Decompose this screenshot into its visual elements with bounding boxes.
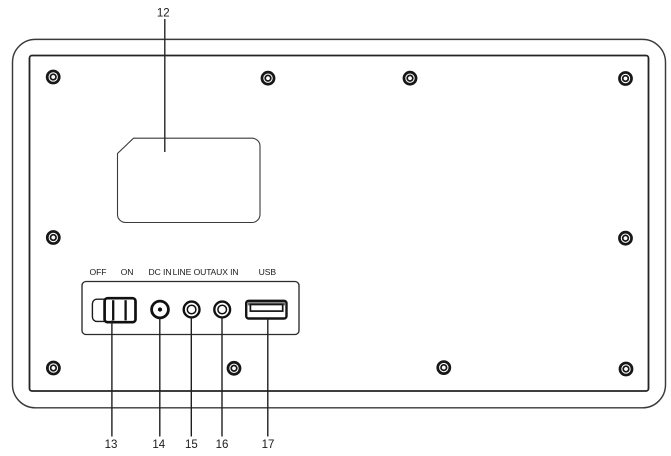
svg-text:17: 17	[262, 439, 275, 451]
svg-text:AUX IN: AUX IN	[210, 267, 238, 277]
svg-text:14: 14	[152, 439, 165, 451]
svg-text:LINE OUT: LINE OUT	[173, 267, 213, 277]
svg-text:DC IN: DC IN	[149, 267, 172, 277]
svg-text:16: 16	[216, 439, 229, 451]
svg-text:USB: USB	[259, 267, 277, 277]
svg-text:OFF: OFF	[90, 267, 107, 277]
svg-text:ON: ON	[121, 267, 134, 277]
svg-text:12: 12	[157, 8, 170, 20]
svg-text:15: 15	[185, 439, 198, 451]
svg-text:13: 13	[105, 439, 118, 451]
